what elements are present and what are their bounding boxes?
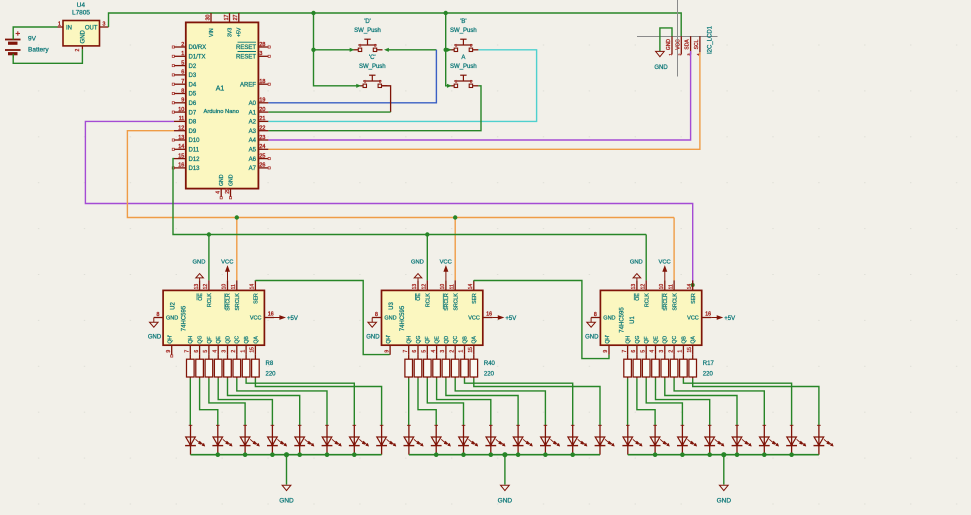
svg-text:OE: OE (198, 293, 204, 301)
resistor R17a 220 (624, 355, 632, 379)
LED D23 (786, 425, 806, 455)
resistor R8a 220 (187, 355, 195, 379)
wire battery- to regulator GND (13, 49, 82, 63)
pin 1 bottom of U2 (240, 345, 246, 355)
svg-text:QD: QD (663, 336, 669, 344)
svg-text:RCLK: RCLK (207, 293, 213, 307)
VCC symbol above U3 SRCLR (440, 260, 452, 281)
svg-text:SCL: SCL (694, 39, 700, 49)
svg-text:GND: GND (384, 316, 396, 322)
svg-text:3: 3 (222, 350, 228, 353)
LED D4 (267, 425, 287, 455)
svg-text:R17: R17 (703, 361, 715, 367)
resistor R8d 220 (214, 355, 222, 379)
svg-text:R8: R8 (266, 361, 274, 367)
svg-text:QB: QB (681, 336, 687, 344)
svg-text:U3: U3 (389, 302, 395, 310)
junction LED rail 7 (570, 452, 575, 457)
svg-text:L7805: L7805 (72, 10, 90, 17)
svg-text:GND: GND (193, 260, 206, 266)
svg-text:R40: R40 (484, 361, 496, 367)
LED D2 (212, 425, 232, 455)
pin 17 top of A1 (224, 13, 230, 22)
junction LED rail 6 (325, 452, 330, 457)
svg-text:16: 16 (486, 312, 492, 318)
svg-text:AREF: AREF (240, 82, 256, 88)
svg-text:4: 4 (212, 350, 218, 353)
svg-text:QF: QF (425, 336, 431, 343)
pin 14 top of U3 (468, 280, 474, 290)
svg-text:4: 4 (216, 191, 222, 194)
resistor R17d 220 (652, 355, 660, 379)
svg-text:A1: A1 (216, 86, 225, 93)
svg-text:D11: D11 (189, 148, 200, 154)
junction orange at U3 SRCLK (453, 215, 457, 219)
svg-text:2: 2 (181, 42, 184, 48)
svg-text:RCLK: RCLK (644, 293, 650, 307)
wire resistor 3 to LED 3 (209, 379, 245, 426)
svg-text:SW_Push: SW_Push (359, 64, 386, 70)
svg-text:QD: QD (225, 336, 231, 344)
resistor R8e 220 (224, 355, 232, 379)
resistor R8b 220 (196, 355, 204, 379)
pin 13 top of U3 (412, 280, 418, 290)
LED D15 (567, 425, 587, 455)
ground symbol above U3 OE (411, 260, 424, 281)
ground symbol above U2 OE (193, 260, 206, 281)
pin 7 bottom of U2 (185, 345, 191, 355)
svg-text:6: 6 (412, 350, 418, 353)
junction LED rail 3 (461, 452, 466, 457)
resistor R8h 220 (252, 355, 260, 379)
svg-text:1: 1 (364, 80, 366, 84)
wire arrowheads at B/A left pins (447, 48, 451, 51)
resistor R8c 220 (205, 355, 213, 379)
pin 15 bottom of U2 (250, 345, 256, 355)
LED D16 (595, 425, 615, 455)
svg-text:A0: A0 (249, 101, 257, 107)
LED D9 (404, 425, 424, 455)
svg-text:GND: GND (366, 335, 380, 341)
pin 10 top of U3 (440, 280, 446, 290)
pin 26 A7 of A1 (249, 163, 271, 172)
resistor R40e 220 (442, 355, 450, 379)
pin 16 VCC of U2 with +5V symbol (264, 312, 297, 322)
svg-text:23: 23 (259, 135, 265, 141)
junction LED rail 4 (707, 452, 712, 457)
ground symbol below LEDs (498, 485, 513, 504)
pin 24 A5 of A1 (249, 144, 269, 153)
LED D12 (485, 425, 505, 455)
svg-text:'D': 'D' (364, 19, 371, 25)
svg-text:D7: D7 (189, 110, 197, 116)
wire I2C SDA to A4 (purple) (268, 51, 690, 140)
pin 7 bottom of U1 (622, 345, 628, 355)
svg-text:220: 220 (266, 371, 277, 377)
resistor R8g 220 (242, 355, 250, 379)
pin 5 bottom of U2 (203, 345, 209, 355)
junction at D button tap (311, 48, 315, 52)
svg-text:Arduino Nano: Arduino Nano (203, 109, 238, 115)
junction LED rail 2 (653, 452, 658, 457)
svg-text:11: 11 (231, 284, 237, 289)
ground symbol at U2 pin 8 (148, 318, 162, 341)
svg-text:SER: SER (254, 293, 260, 304)
resistor R17f 220 (670, 355, 678, 379)
svg-text:QE: QE (653, 336, 659, 344)
pin 22 A3 of A1 (249, 126, 269, 135)
svg-text:5: 5 (181, 60, 184, 66)
wire I2C GND pin to ground (660, 28, 672, 51)
wire resistor 8 to LED 8 (255, 379, 381, 426)
svg-text:QA: QA (472, 336, 478, 344)
svg-text:A4: A4 (249, 138, 257, 144)
svg-text:QH: QH (626, 336, 632, 344)
svg-text:VCC: VCC (250, 316, 262, 322)
svg-text:D6: D6 (189, 101, 197, 107)
wire resistor 1 to LED 1 (627, 379, 629, 426)
svg-text:QH': QH' (168, 335, 174, 344)
wire resistor 2 to LED 2 (200, 379, 218, 426)
pin 15 D12 of A1 (174, 153, 200, 162)
pin 19 A0 of A1 (249, 98, 269, 107)
wire resistor 6 to LED 6 (674, 379, 764, 426)
pin 3 bottom of U1 (659, 345, 665, 355)
svg-text:25: 25 (259, 153, 265, 159)
svg-text:RCLK: RCLK (426, 293, 432, 307)
svg-text:GND: GND (148, 335, 162, 341)
pin 3 bottom of U2 (222, 345, 228, 355)
pin 5 bottom of U3 (422, 345, 428, 355)
svg-text:18: 18 (259, 79, 265, 85)
svg-text:QA: QA (691, 336, 697, 344)
pin 2 D0/RX of A1 (172, 42, 206, 51)
pin 1 bottom of U1 (678, 345, 684, 355)
svg-text:VCC: VCC (675, 39, 681, 50)
pin 7 bottom of U3 (403, 345, 409, 355)
svg-text:13: 13 (178, 135, 184, 141)
pin 16 VCC of U1 with +5V symbol (702, 312, 735, 322)
LED D8 (376, 425, 396, 455)
svg-text:QC: QC (453, 336, 459, 344)
pin 4 bottom of U2 (212, 345, 218, 355)
svg-text:15: 15 (250, 347, 256, 353)
pin 8 GND of U2 (154, 312, 163, 318)
svg-text:1: 1 (678, 350, 684, 353)
svg-text:+5V: +5V (505, 316, 516, 322)
LED D13 (513, 425, 533, 455)
svg-text:GND: GND (585, 335, 599, 341)
wire resistor 3 to LED 3 (427, 379, 463, 426)
svg-text:GND: GND (717, 498, 732, 505)
pin 21 A2 of A1 (249, 116, 269, 125)
svg-text:30: 30 (205, 15, 211, 21)
VCC symbol above U2 SRCLR (221, 260, 233, 281)
svg-text:74HC595: 74HC595 (620, 307, 626, 333)
svg-text:10: 10 (222, 284, 228, 290)
pin 5 D2 of A1 (172, 60, 197, 69)
svg-text:GND: GND (228, 174, 234, 186)
svg-text:SRCLR: SRCLR (444, 293, 450, 311)
wire rail to ground (723, 455, 725, 485)
wire resistor 2 to LED 2 (418, 379, 436, 426)
svg-text:1: 1 (240, 350, 246, 353)
svg-text:8: 8 (375, 312, 378, 318)
pin 15 bottom of U3 (468, 345, 474, 355)
pin 12 top of U1 (640, 280, 646, 290)
LED D19 (677, 425, 697, 455)
svg-text:3: 3 (259, 51, 262, 57)
svg-text:GND: GND (219, 174, 225, 186)
svg-text:10: 10 (440, 284, 446, 290)
pin 3 OUT of U4 (100, 26, 109, 28)
svg-text:20: 20 (259, 107, 265, 113)
svg-text:7: 7 (403, 350, 409, 353)
pin 2 GND of U4 (81, 46, 83, 49)
svg-text:QB: QB (462, 336, 468, 344)
svg-text:A5: A5 (249, 148, 257, 154)
svg-text:U1: U1 (630, 316, 636, 324)
svg-text:QF: QF (207, 336, 213, 343)
pushbutton SW_B SW_Push (448, 19, 478, 52)
wire U1 QHprime to U3 SER (474, 280, 609, 358)
svg-text:A1: A1 (249, 110, 257, 116)
svg-text:4: 4 (650, 350, 656, 353)
ground symbol below LEDs (717, 485, 732, 504)
svg-text:27: 27 (233, 15, 239, 21)
svg-text:5: 5 (640, 350, 646, 353)
svg-text:13: 13 (631, 284, 637, 290)
svg-text:QH: QH (188, 336, 194, 344)
pin 8 D5 of A1 (172, 88, 197, 97)
junction on rail at buttons B/A riser (444, 11, 448, 15)
pin 9 D6 of A1 (172, 98, 197, 107)
pin 23 A4 of A1 (249, 135, 269, 144)
svg-text:26: 26 (259, 163, 265, 169)
svg-text:10: 10 (178, 107, 184, 113)
pin 13 top of U1 (631, 280, 637, 290)
arduino A1 Arduino Nano body (186, 22, 259, 188)
svg-text:A: A (461, 55, 465, 61)
svg-text:GND: GND (166, 316, 178, 322)
pin 9 bottom of U1 (603, 345, 609, 355)
LED D24 (814, 425, 834, 455)
svg-text:VCC: VCC (440, 260, 452, 266)
svg-text:U4: U4 (77, 2, 86, 9)
svg-text:5: 5 (203, 350, 209, 353)
junction orange at U2 SRCLK (235, 215, 239, 219)
svg-text:1: 1 (359, 44, 361, 48)
svg-text:16: 16 (705, 312, 711, 318)
resistor R40b 220 (414, 355, 422, 379)
resistor R17b 220 (633, 355, 641, 379)
svg-text:8: 8 (157, 312, 160, 318)
svg-text:1: 1 (459, 350, 465, 353)
svg-text:14: 14 (250, 284, 256, 290)
svg-text:2: 2 (470, 44, 472, 48)
svg-text:3: 3 (659, 350, 665, 353)
pin 12 D9 of A1 (174, 126, 197, 135)
wire LED cathode rail (409, 454, 600, 456)
svg-text:+5V: +5V (724, 316, 735, 322)
junction LED rail 5 (297, 452, 302, 457)
svg-text:SW_Push: SW_Push (450, 64, 477, 70)
svg-text:+5V: +5V (237, 27, 243, 37)
svg-text:3: 3 (103, 21, 106, 27)
resistor R40f 220 (451, 355, 459, 379)
battery BT1 9V (5, 31, 49, 58)
pin 29 GND bottom of A1 (225, 188, 232, 199)
junction on rail at buttons D/C riser (311, 11, 315, 15)
svg-text:4: 4 (431, 350, 437, 353)
svg-text:2: 2 (374, 44, 376, 48)
junction LED rail 7 (352, 452, 357, 457)
svg-text:QD: QD (444, 336, 450, 344)
junction LED rail 4 (270, 452, 275, 457)
LED D20 (704, 425, 724, 455)
svg-text:VCC: VCC (687, 316, 699, 322)
svg-text:7: 7 (622, 350, 628, 353)
wire resistor 4 to LED 4 (437, 379, 491, 426)
wire rail to ground (504, 455, 506, 485)
ground symbol at U3 pin 8 (366, 318, 380, 341)
svg-text:16: 16 (268, 312, 274, 318)
pin 2 bottom of U1 (668, 345, 674, 355)
pin 14 top of U1 (687, 280, 693, 290)
pin 27 top of A1 (233, 13, 239, 22)
pin 8 GND of U3 (372, 312, 381, 318)
svg-text:9: 9 (384, 350, 390, 353)
wire rail to ground (286, 455, 288, 485)
svg-text:11: 11 (668, 284, 674, 289)
svg-text:VIN: VIN (209, 28, 215, 37)
svg-text:I2C_LCD1: I2C_LCD1 (708, 25, 714, 54)
svg-text:2: 2 (449, 350, 455, 353)
svg-text:OE: OE (416, 293, 422, 301)
svg-text:GND: GND (80, 29, 86, 43)
LED D7 (349, 425, 369, 455)
svg-text:13: 13 (412, 284, 418, 290)
svg-text:1: 1 (181, 51, 184, 57)
wire button A to A3 (green) (268, 86, 481, 131)
svg-text:D1/TX: D1/TX (189, 55, 206, 61)
svg-text:QH': QH' (386, 335, 392, 344)
wire resistor 6 to LED 6 (455, 379, 545, 426)
junction LED rail 6 (543, 452, 548, 457)
svg-text:12: 12 (203, 284, 209, 290)
label R40 220 (484, 361, 496, 377)
pin 11 top of U3 (449, 280, 455, 290)
pin 5 bottom of U1 (640, 345, 646, 355)
pin 16 VCC of U3 with +5V symbol (483, 312, 516, 322)
pin 6 bottom of U3 (412, 345, 418, 355)
svg-text:11: 11 (449, 284, 455, 289)
svg-text:17: 17 (224, 15, 230, 21)
svg-text:QH: QH (407, 336, 413, 344)
svg-text:2: 2 (75, 49, 81, 52)
svg-text:2: 2 (231, 350, 237, 353)
svg-text:RESET: RESET (236, 55, 256, 61)
junction at SER of U1 (691, 283, 695, 287)
svg-text:U2: U2 (171, 302, 177, 310)
wire arrowheads at D/C left pins (350, 48, 354, 51)
svg-text:2: 2 (470, 80, 472, 84)
pin 3 RESET of A1 (236, 51, 270, 60)
junction LED rail 4 (489, 452, 494, 457)
svg-text:1: 1 (455, 80, 457, 84)
pin 4 bottom of U1 (650, 345, 656, 355)
svg-text:SRCLK: SRCLK (453, 293, 459, 311)
svg-text:QC: QC (672, 336, 678, 344)
junction LED rail 2 (434, 452, 439, 457)
svg-text:+5V: +5V (287, 316, 298, 322)
svg-text:VCC: VCC (221, 260, 233, 266)
pin 1 IN of U4 (58, 26, 64, 28)
wire +5V top rail from U4 OUT to I2C VCC (109, 13, 682, 36)
wire button D to A0 (green then blue) (387, 49, 437, 51)
pin 4 GND bottom of A1 (216, 189, 223, 199)
wire resistor 5 to LED 5 (446, 379, 518, 426)
LED D18 (650, 425, 670, 455)
pin 10 D7 of A1 (172, 107, 197, 116)
svg-text:OUT: OUT (85, 25, 98, 31)
wire resistor 1 to LED 1 (189, 379, 191, 426)
resistor R8f 220 (233, 355, 241, 379)
wire resistor 6 to LED 6 (237, 379, 327, 426)
ground symbol above U1 OE (630, 260, 643, 281)
LED D14 (540, 425, 560, 455)
resistor R17h 220 (689, 355, 697, 379)
svg-text:A6: A6 (249, 157, 257, 163)
junction LED rail 3 (243, 452, 248, 457)
pushbutton SW_A SW_Push (448, 55, 478, 88)
svg-text:Battery: Battery (28, 47, 49, 54)
pin 10 top of U2 (222, 280, 228, 290)
LED D3 (240, 425, 260, 455)
svg-text:SER: SER (472, 293, 478, 304)
junction LED rail 6 (762, 452, 767, 457)
junction LED rail 3 (680, 452, 685, 457)
svg-text:D13: D13 (189, 166, 201, 172)
pin 14 D11 of A1 (172, 144, 200, 153)
svg-text:VCC: VCC (468, 316, 480, 322)
wire riser +5V to buttons D and C (314, 13, 358, 86)
svg-text:'B': 'B' (460, 19, 466, 25)
junction at B button tap (444, 48, 448, 52)
svg-text:15: 15 (687, 347, 693, 353)
LED D17 (622, 425, 642, 455)
junction rail ground tap (502, 452, 507, 457)
wire resistor 8 to LED 8 (474, 379, 600, 426)
svg-text:9V: 9V (28, 36, 37, 43)
wire resistor 1 to LED 1 (408, 379, 410, 426)
svg-text:RESET: RESET (236, 45, 256, 51)
wire resistor 5 to LED 5 (228, 379, 300, 426)
label R17 220 (703, 361, 715, 377)
svg-text:2: 2 (668, 350, 674, 353)
svg-text:12: 12 (422, 284, 428, 290)
svg-text:A7: A7 (249, 166, 257, 172)
pin 6 bottom of U2 (194, 345, 200, 355)
wire resistor 8 to LED 8 (693, 379, 819, 426)
svg-text:1: 1 (455, 44, 457, 48)
ground symbol below LEDs (279, 485, 294, 504)
svg-text:D4: D4 (189, 82, 197, 88)
wire resistor 7 to LED 7 (683, 379, 791, 426)
wire D12 to RCLK pins (green) (173, 159, 646, 235)
resistor R17c 220 (642, 355, 650, 379)
svg-text:GND: GND (666, 39, 672, 51)
